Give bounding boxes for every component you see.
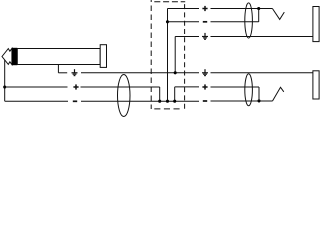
ground symbol left bbox=[72, 69, 78, 75]
breakout box (dashed) left edge bbox=[150, 0, 152, 109]
wire: top plus line bbox=[168, 8, 200, 10]
label: minus (top right) bbox=[203, 21, 207, 23]
junction: bottom plus-to-minus tie bbox=[257, 99, 260, 102]
wire: J1 sleeve drop to shield line bbox=[57, 65, 59, 73]
wire: J1 tip lead vertical bbox=[4, 60, 6, 101]
connector J2 collar (top right plug) bbox=[313, 7, 319, 42]
wire: shield/ground line left segment bbox=[58, 72, 67, 74]
ground symbol bottom right bbox=[202, 69, 208, 75]
junction: splitter vertical to bottom minus line bbox=[166, 100, 169, 103]
label: plus (bottom right) bbox=[202, 84, 207, 89]
breakout box (dashed) bottom edge bbox=[154, 108, 180, 110]
cable C2 shield ellipse (top right cable) bbox=[245, 3, 253, 38]
connector J1 mono jack plug (left, TS) tip bbox=[2, 48, 12, 64]
label: minus (bottom right) bbox=[203, 100, 207, 102]
ground symbol top right bbox=[202, 33, 208, 39]
wire: shield branch vertical to top ground line bbox=[174, 37, 176, 73]
junction: splitter vertical to top minus wire bbox=[166, 20, 169, 23]
wire: top folded-back lead (unconnected) bbox=[272, 9, 284, 20]
junction: bottom plus branch on minus line bbox=[173, 100, 176, 103]
wire: splitter vertical to top plug hot bbox=[167, 9, 169, 102]
cable C1 shield ellipse (left cable) bbox=[118, 75, 131, 117]
wire: top plus-to-minus bridge bbox=[258, 9, 260, 22]
label: plus (left) bbox=[73, 84, 78, 89]
wire: bottom folded-back lead (unconnected) bbox=[273, 87, 284, 101]
wire: shield/ground line main run to right plug bbox=[81, 72, 199, 74]
wire: bottom plus line from splitter bbox=[175, 86, 199, 88]
label: plus (top right) bbox=[202, 6, 207, 11]
connector J3 collar (bottom right plug) bbox=[313, 71, 319, 99]
wire: left plus line bbox=[5, 86, 68, 88]
connector J1 tip insulator band bbox=[12, 48, 17, 65]
label: minus (left) bbox=[73, 100, 77, 102]
wire: left plus line corner down to minus line bbox=[159, 87, 161, 101]
junction: tip lead to plus wire bbox=[3, 85, 6, 88]
junction: shield branch on ground line bbox=[174, 71, 177, 74]
junction: plus-to-minus tie bbox=[158, 100, 161, 103]
breakout box (dashed) right edge bbox=[184, 4, 186, 109]
wire: top minus line bbox=[168, 21, 200, 23]
wire: top ground line bbox=[175, 36, 199, 38]
wire: bottom plus branch vertical bbox=[174, 87, 176, 101]
wire: left minus line bbox=[5, 100, 68, 102]
wire: bottom plus corner down bbox=[258, 87, 260, 101]
breakout box (dashed) top edge bbox=[154, 1, 185, 3]
connector J1 collar bbox=[100, 45, 106, 68]
wire: bottom minus line through box bbox=[211, 100, 273, 102]
connector J1 sleeve body bbox=[17, 49, 100, 65]
junction: top plus/minus tie bbox=[257, 7, 260, 10]
cable C3 shield ellipse (bottom right cable) bbox=[245, 74, 253, 106]
